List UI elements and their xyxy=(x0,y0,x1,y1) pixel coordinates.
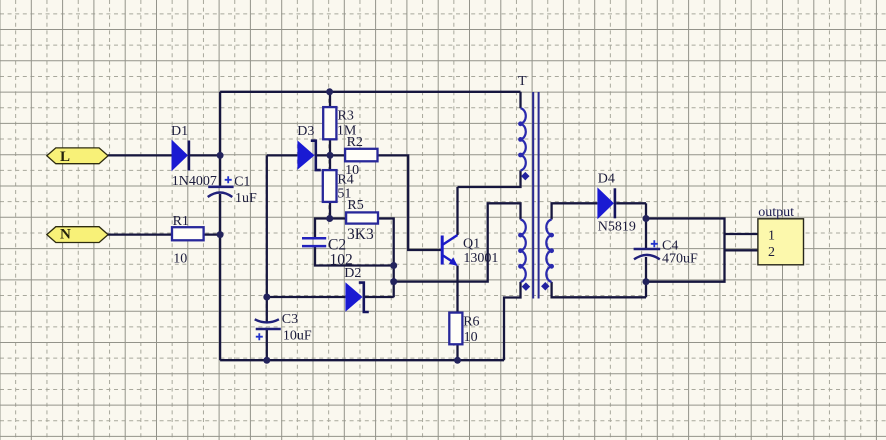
wire R4 top stub xyxy=(329,155,331,170)
wire R3 top stub xyxy=(329,92,331,107)
wire output branch loop xyxy=(646,219,725,282)
svg-text:R3: R3 xyxy=(338,109,354,124)
wire R2 to Q1 base xyxy=(378,155,442,250)
wire left bus upper (node A to C1) xyxy=(219,92,221,187)
transformer T feedback winding xyxy=(518,220,526,282)
resistor R5 xyxy=(346,198,378,243)
wire primary bottom to collector xyxy=(458,171,521,187)
zener diode D2 xyxy=(344,266,369,312)
zener diode D3 xyxy=(297,124,321,170)
transformer T primary winding xyxy=(518,108,526,170)
svg-text:L: L xyxy=(60,149,70,165)
svg-text:T: T xyxy=(518,74,527,89)
wire L port to D1 anode xyxy=(108,154,171,156)
wire feedback bottom to rail xyxy=(504,282,521,360)
port L xyxy=(47,148,108,165)
wire output pin 2 stub xyxy=(725,249,758,251)
wire primary top stub xyxy=(519,92,521,108)
svg-text:D1: D1 xyxy=(171,124,188,139)
transformer primary polarity dot xyxy=(521,172,529,180)
wire output pin 1 stub xyxy=(725,233,758,235)
wire D2 cathode wire xyxy=(364,296,394,298)
svg-text:D4: D4 xyxy=(598,171,615,186)
wire R1 to left bus xyxy=(204,233,221,235)
wire D4 cathode wire xyxy=(616,202,646,204)
node feedback return on mid bus xyxy=(390,278,397,285)
svg-text:R5: R5 xyxy=(347,198,363,213)
wire top rail xyxy=(220,91,520,93)
transformer secondary polarity dot xyxy=(541,282,549,290)
wire secondary top to D4 xyxy=(552,203,598,219)
svg-text:Q1: Q1 xyxy=(463,237,480,252)
wire left bus lower (C1 to bottom rail) xyxy=(219,194,221,360)
node R4 / R5 / C2 xyxy=(326,215,333,222)
wire R5 right to mid bus xyxy=(378,219,394,298)
transformer feedback polarity dot xyxy=(522,282,530,290)
wire C3 top lead xyxy=(266,297,268,322)
node R6 bottom on rail xyxy=(454,357,461,364)
node C3 bottom on rail xyxy=(263,357,270,364)
wire feedback top to mid bus xyxy=(394,203,521,281)
wire Q1 collector riser xyxy=(456,187,458,235)
node C2 return on mid bus xyxy=(390,262,397,269)
svg-text:3K3: 3K3 xyxy=(347,226,374,243)
transistor Q1 xyxy=(442,235,498,266)
wire R6 to bottom rail xyxy=(456,344,458,360)
wire Q1 emitter to R6 xyxy=(456,266,458,313)
diode D1 xyxy=(171,124,217,189)
capacitor C1 xyxy=(208,174,257,206)
resistor R1 xyxy=(172,214,204,267)
svg-text:D2: D2 xyxy=(344,266,361,281)
wire C2 bottom lead xyxy=(315,246,394,265)
wire C2 top lead xyxy=(315,219,330,239)
wire bottom rail xyxy=(220,359,504,361)
diode D4 xyxy=(597,171,636,234)
wire output bus lower xyxy=(645,257,647,297)
wire D3 cathode to R2 xyxy=(317,154,345,156)
transformer T core xyxy=(518,74,539,299)
capacitor C3 xyxy=(255,312,312,343)
svg-text:10: 10 xyxy=(464,330,478,345)
wire R5 left lead xyxy=(330,217,346,219)
svg-text:C1: C1 xyxy=(234,174,250,189)
node A (D1 cathode) xyxy=(217,152,224,159)
svg-text:10uF: 10uF xyxy=(283,328,312,343)
node D2 anode / C3 top xyxy=(263,294,270,301)
node D4 cathode / C4 / output+ xyxy=(643,215,650,222)
wire secondary bottom wire xyxy=(552,282,646,297)
svg-text:10: 10 xyxy=(173,252,187,267)
svg-text:N: N xyxy=(60,227,71,243)
svg-text:R4: R4 xyxy=(337,173,353,188)
svg-text:C3: C3 xyxy=(282,312,298,327)
resistor R6 xyxy=(449,313,479,346)
wire R4 bottom stub xyxy=(329,202,331,219)
resistor R4 xyxy=(323,170,354,202)
capacitor C2 xyxy=(302,237,353,269)
svg-text:470uF: 470uF xyxy=(662,251,698,266)
wire N port to R1 xyxy=(108,233,172,235)
transformer T secondary winding xyxy=(546,220,554,282)
svg-text:2: 2 xyxy=(768,245,775,260)
svg-text:R2: R2 xyxy=(347,135,363,150)
port N xyxy=(47,227,108,243)
capacitor C4 xyxy=(634,238,698,266)
node R3 top on rail xyxy=(326,88,333,95)
wire C3 bottom lead xyxy=(266,329,268,360)
svg-text:1uF: 1uF xyxy=(235,191,257,206)
svg-text:1: 1 xyxy=(768,229,775,244)
node B (R1 right) xyxy=(217,231,224,238)
wire D3 anode bus down xyxy=(266,155,268,297)
connector output xyxy=(758,205,804,265)
resistor R3 xyxy=(323,107,357,139)
node D3 cathode / R3 / R2 / R4 xyxy=(327,152,334,159)
wire D2 anode wire xyxy=(267,296,346,298)
wire output bus upper xyxy=(645,203,647,249)
svg-text:13001: 13001 xyxy=(463,251,498,266)
wire D1 cathode to node A xyxy=(190,154,220,156)
svg-text:R6: R6 xyxy=(463,315,479,330)
svg-text:output: output xyxy=(758,205,794,220)
svg-text:D3: D3 xyxy=(297,124,314,139)
resistor R2 xyxy=(345,135,377,178)
svg-text:N5819: N5819 xyxy=(598,220,636,235)
svg-text:R1: R1 xyxy=(173,214,189,229)
wire D3 anode wire xyxy=(267,154,298,156)
wire R3 bottom stub xyxy=(329,139,331,155)
node C4 minus / output- xyxy=(643,278,650,285)
